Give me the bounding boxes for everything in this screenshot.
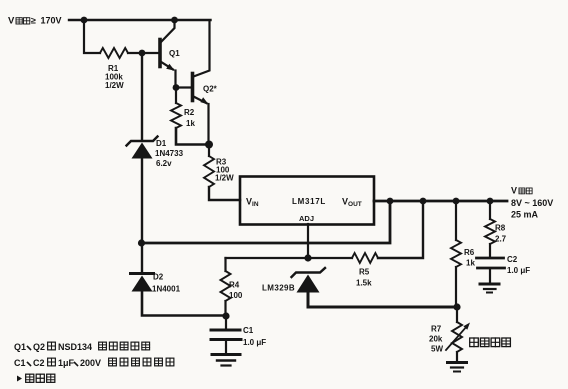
junction dot Q1 emitter / Q2 base / R2 node xyxy=(173,84,180,91)
transistor Q2 xyxy=(193,21,218,105)
ground below C2 xyxy=(480,284,499,293)
svg-text:1μF: 1μF xyxy=(58,358,75,368)
svg-text:D1: D1 xyxy=(156,139,167,148)
svg-text:5W: 5W xyxy=(431,345,443,354)
note line 2: C1 C2 1uF 200V capacitors xyxy=(14,358,174,368)
zener diode U2 LM329B xyxy=(262,268,325,293)
svg-text:1N4001: 1N4001 xyxy=(152,285,181,294)
junction dot D1 / D2 / VOUT feedback node xyxy=(138,239,145,246)
wire node to R3 xyxy=(208,145,210,157)
svg-text:≥: ≥ xyxy=(31,16,36,26)
wire input node down to R1 xyxy=(84,20,100,53)
svg-text:1/2W: 1/2W xyxy=(215,174,234,183)
svg-text:Q1: Q1 xyxy=(14,342,26,352)
resistor R2 1k xyxy=(171,88,195,129)
wire R1 node down to D1 xyxy=(141,53,143,139)
svg-text:C2: C2 xyxy=(507,255,518,264)
ground below R7 xyxy=(448,363,467,372)
junction dot R1 / D1 / Q1 base node xyxy=(139,50,146,57)
svg-text:ADJ: ADJ xyxy=(299,214,314,223)
wire ADJ feedback line left part xyxy=(226,257,353,259)
transistor Q1 xyxy=(160,21,180,88)
diode D2 1N4001 xyxy=(131,273,181,294)
svg-text:Q2: Q2 xyxy=(33,342,45,352)
label voltage adjust (CJK) xyxy=(470,338,511,347)
svg-text:6.2v: 6.2v xyxy=(156,159,172,168)
junction dot input node xyxy=(81,17,88,24)
note line 1: Q1 Q2 NSD134 type xyxy=(14,342,150,352)
svg-text:C2: C2 xyxy=(33,358,45,368)
wire Q1 emitter node to Q2 base xyxy=(176,86,192,88)
svg-text:D2: D2 xyxy=(153,273,164,282)
junction dot Q1 collector node xyxy=(171,17,178,24)
junction dot R4 / C1 / D2 node xyxy=(222,312,229,319)
svg-text:1N4733: 1N4733 xyxy=(155,149,184,158)
resistor R6 1k xyxy=(451,201,475,307)
note line 3: heatsink xyxy=(17,374,55,382)
svg-text:1.5k: 1.5k xyxy=(356,279,372,288)
svg-text:C1: C1 xyxy=(14,358,26,368)
resistor R4 100 xyxy=(221,258,243,316)
svg-text:VOUT: VOUT xyxy=(342,197,362,209)
capacitor C1 1.0uF xyxy=(211,316,266,353)
capacitor C2 1.0uF xyxy=(477,255,531,283)
wire R1 to Q1 base xyxy=(128,52,159,54)
svg-text:LM329B: LM329B xyxy=(262,284,295,293)
wire ADJ pin down xyxy=(307,224,309,258)
wire D1 anode down to feedback node xyxy=(141,158,143,243)
svg-text:Q2*: Q2* xyxy=(203,85,218,94)
label V-input >= 170V xyxy=(8,16,62,27)
junction dot VOUT / R5 xyxy=(420,198,427,205)
resistor R3 100 1/2W xyxy=(204,156,234,187)
svg-text:R8: R8 xyxy=(495,224,506,233)
junction dot VOUT / feedback wire xyxy=(387,198,394,205)
resistor R5 1.5k xyxy=(352,253,378,288)
wire feedback node to VOUT rail xyxy=(142,201,391,243)
wire R5 to VOUT rail xyxy=(378,201,423,258)
rheostat R7 20k 5W xyxy=(429,307,470,361)
svg-text:R4: R4 xyxy=(229,281,240,290)
svg-text:200V: 200V xyxy=(80,358,101,368)
svg-text:V: V xyxy=(511,186,517,196)
svg-text:2.7: 2.7 xyxy=(495,235,507,244)
resistor R8 2.7 xyxy=(485,201,507,257)
svg-text:C1: C1 xyxy=(243,326,254,335)
wire R3 to VIN pin of U1 xyxy=(209,187,240,200)
svg-text:1.0 μF: 1.0 μF xyxy=(243,338,266,347)
svg-text:NSD134: NSD134 xyxy=(58,342,92,352)
svg-text:VIN: VIN xyxy=(246,197,259,209)
wire Q2 emitter down xyxy=(207,104,209,145)
wire D2 anode to C1 / R4 node xyxy=(142,291,226,316)
zener diode D1 1N4733 6.2V xyxy=(127,137,184,169)
svg-text:V: V xyxy=(8,16,15,27)
svg-text:1k: 1k xyxy=(186,119,195,128)
IC U1 LM317L xyxy=(240,177,374,225)
svg-text:100: 100 xyxy=(229,291,243,300)
svg-text:1/2W: 1/2W xyxy=(105,81,124,90)
svg-text:LM317L: LM317L xyxy=(292,197,326,206)
junction dot VOUT / R6 xyxy=(453,198,460,205)
junction dot VOUT / R8 xyxy=(487,198,494,205)
label V-output 8V~160V 25mA xyxy=(511,186,553,220)
svg-text:R6: R6 xyxy=(464,248,475,257)
wire R2 bottom to Q2 emitter node xyxy=(176,128,209,145)
svg-text:R7: R7 xyxy=(431,325,442,334)
junction dot ADJ / LM329 node xyxy=(304,254,311,261)
ground below C1 xyxy=(212,355,240,366)
wire top input rail xyxy=(69,19,211,21)
svg-text:Q1: Q1 xyxy=(169,49,180,58)
svg-text:170V: 170V xyxy=(41,16,62,26)
svg-text:R2: R2 xyxy=(184,108,195,117)
svg-text:20k: 20k xyxy=(429,335,443,344)
wire LM329 anode to bottom rail xyxy=(308,292,457,307)
svg-text:R5: R5 xyxy=(359,268,370,277)
wire feedback node down to D2 xyxy=(141,243,143,272)
svg-text:25 mA: 25 mA xyxy=(511,210,539,220)
resistor R1 100k 1/2W xyxy=(100,48,128,90)
svg-text:1k: 1k xyxy=(466,259,475,268)
junction dot Q2 emitter / R3 node xyxy=(205,141,213,149)
svg-text:1.0 μF: 1.0 μF xyxy=(507,266,530,275)
junction dot R6 / R7 / LM329 node xyxy=(453,303,460,310)
wire VOUT output rail xyxy=(374,200,507,203)
svg-text:8V ~ 160V: 8V ~ 160V xyxy=(511,198,553,208)
